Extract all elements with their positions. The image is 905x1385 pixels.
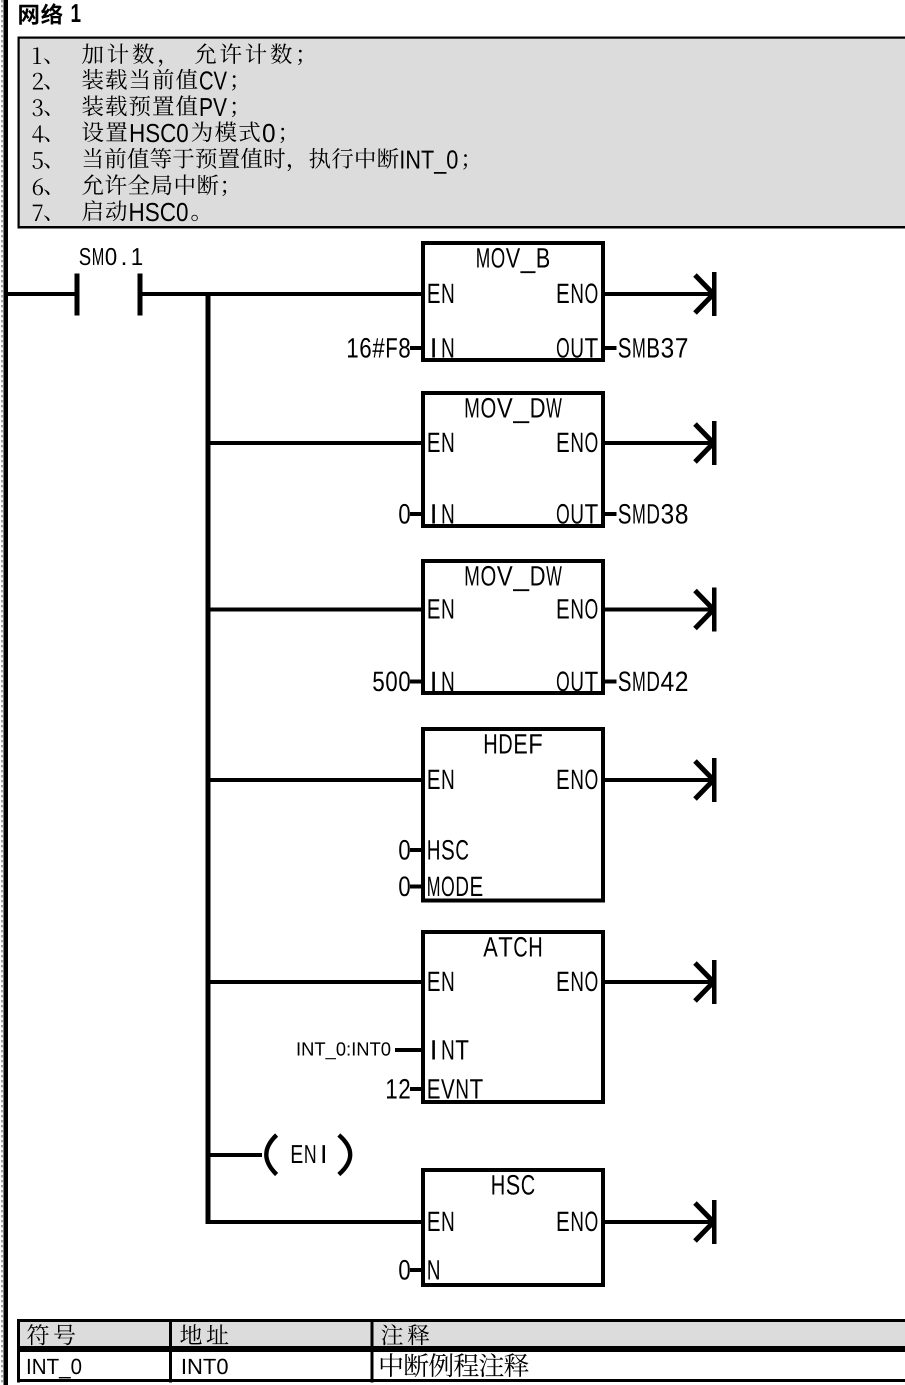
arrow out MOV_DW U3 [605, 608, 712, 612]
box MOV_DW U3 [423, 561, 603, 693]
pin IN MOV_DW U2 + value 0 [432, 504, 453, 523]
arrow out ATCH U5 [605, 980, 712, 984]
comment line 3 [33, 99, 50, 116]
table row 中断例程注释 [381, 1353, 529, 1377]
coil ENI [266, 1135, 276, 1175]
network comment box [18, 37, 905, 229]
pin EVNT ATCH U5 + value 12 [429, 1079, 483, 1098]
pin OUT MOV_DW U2 + value SMD38 [557, 504, 598, 524]
arrow out HSC U6 [605, 1220, 712, 1224]
comment line 4 [32, 125, 49, 142]
pin ENO MOV_DW U3 [558, 599, 598, 619]
table row INT_0 [28, 1359, 81, 1379]
contact SM0.1 [75, 274, 80, 316]
pin EN HSC U6 [429, 1212, 454, 1231]
comment line 7 [33, 205, 50, 221]
arrow out MOV_DW U2 [605, 441, 712, 445]
label HSC U6 title [492, 1175, 534, 1195]
wire rung5 [211, 980, 422, 984]
pin EN HDEF U4 [429, 770, 454, 789]
page-edge dotted line [1, 0, 3, 1385]
pin OUT MOV_B U1 + value SMB37 [557, 338, 598, 358]
pin ENO MOV_B U1 [558, 283, 598, 303]
pin MODE HDEF U4 + value 0 [428, 876, 482, 896]
label MOV_DW U3 title [466, 566, 562, 591]
pin EN MOV_DW U3 [429, 599, 454, 618]
label HDEF U4 title [485, 734, 542, 753]
pin IN MOV_DW U3 + value 500 [432, 672, 453, 691]
label MOV_B U1 title [477, 248, 549, 273]
arrow out MOV_B U1 [605, 292, 712, 296]
pin EN MOV_DW U2 [429, 433, 454, 452]
pin ENO HDEF U4 [558, 769, 598, 789]
wire rung2 [211, 441, 422, 445]
pin ENO HSC U6 [558, 1211, 598, 1231]
pin OUT MOV_DW U3 + value SMD42 [557, 671, 598, 691]
pin N HSC U6 + value 0 [428, 1260, 439, 1279]
pin HSC HDEF U4 + value 0 [428, 840, 468, 860]
box ATCH U5 [423, 932, 603, 1102]
pin ENO ATCH U5 [558, 971, 598, 991]
box HSC U6 [423, 1170, 603, 1285]
wire rung1 right [143, 292, 422, 296]
box HDEF U4 [423, 729, 603, 901]
comment line 5 [33, 152, 50, 169]
arrow out HDEF U4 [605, 778, 712, 782]
label ATCH U5 title [483, 937, 541, 957]
comment line 2 [33, 73, 50, 90]
wire rung6 [211, 1220, 422, 1224]
table header 地址 [180, 1324, 228, 1344]
wire rung ENI [211, 1153, 263, 1157]
wire rung3 [211, 608, 422, 612]
pin INT ATCH U5 + value INT_0:INT0 [432, 1040, 468, 1059]
box MOV_DW U2 [423, 393, 603, 526]
table header 符号 [27, 1324, 75, 1345]
network title 网络 1 [19, 3, 62, 24]
branch vertical wire [206, 292, 211, 1224]
comment line 6 [33, 178, 50, 195]
symbol table frame [17, 1319, 905, 1383]
wire rung1 left [8, 292, 75, 296]
left power rail [4, 0, 9, 1385]
table header 注释 [381, 1324, 429, 1345]
pin EN MOV_B U1 [429, 284, 454, 303]
table row INT0 [183, 1359, 228, 1375]
pin ENO MOV_DW U2 [558, 432, 598, 452]
pin IN MOV_B U1 + value 16#F8 [432, 338, 453, 357]
pin EN ATCH U5 [429, 972, 454, 991]
comment line 1 [33, 47, 49, 64]
wire rung4 [211, 778, 422, 782]
label MOV_DW U2 title [466, 398, 562, 423]
box MOV_B U1 [423, 243, 603, 360]
